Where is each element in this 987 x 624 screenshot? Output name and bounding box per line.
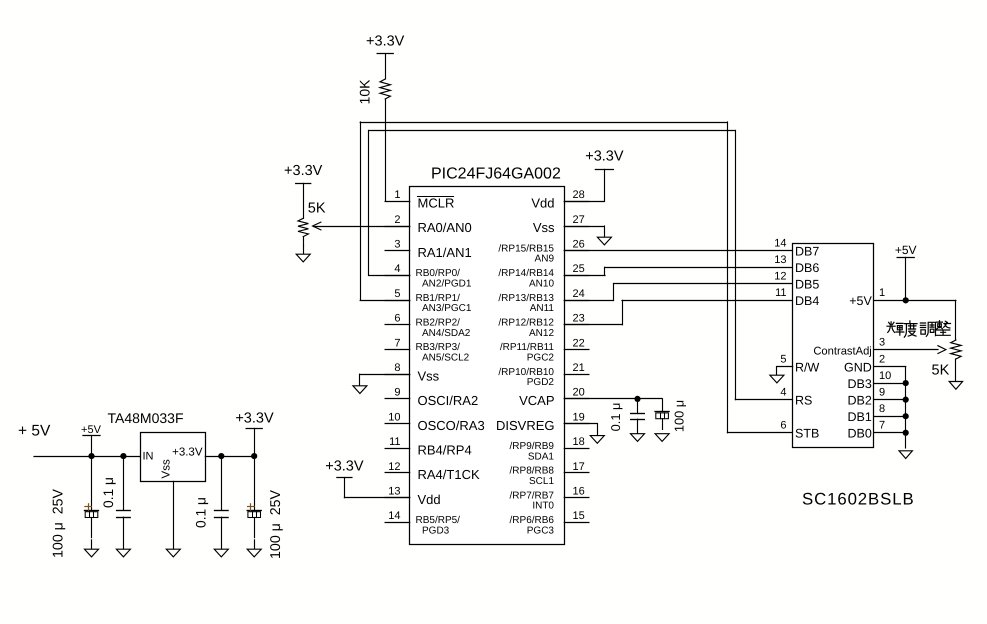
node junction DB2 [903, 397, 909, 403]
svg-text:+5V: +5V [81, 424, 102, 436]
svg-text:12: 12 [774, 271, 786, 283]
U2 pin 14 DB7 label [774, 238, 819, 259]
svg-text:100 μ 25V: 100 μ 25V [268, 490, 284, 559]
svg-text:RB4/RP4: RB4/RP4 [418, 443, 472, 458]
capacitor C5 0.1u on VCAP [631, 399, 645, 434]
wire Vdd pin28 to +3.3V [564, 169, 604, 201]
node junction C3 [218, 453, 224, 459]
U2 pin 6 STB label [780, 420, 819, 441]
svg-text:13: 13 [388, 486, 400, 498]
wire ContrastAdj pin3 to wiper with arrow [874, 346, 946, 354]
svg-text:DB7: DB7 [795, 244, 819, 258]
ground (left pot) [296, 246, 310, 262]
U1 pin 9 stub and label [385, 387, 478, 408]
U1 pin 1 stub and label [385, 189, 454, 210]
wire DB1 pin8 to chain [874, 416, 906, 418]
svg-text:RS: RS [795, 393, 812, 407]
ground (C5) [631, 434, 645, 442]
svg-text:PGC3: PGC3 [527, 525, 555, 536]
node junction +5V [903, 297, 909, 303]
U1 pin 5 stub and label [385, 288, 472, 314]
svg-text:16: 16 [573, 486, 585, 498]
svg-text:AN3/PGC1: AN3/PGC1 [422, 303, 472, 314]
U2 pin 9 DB2 label [847, 386, 885, 407]
wire pin23 RB12 to LCD DB4 [564, 300, 792, 324]
power +3.3V supply (pin 13 Vdd) [325, 458, 364, 477]
svg-text:+5V: +5V [895, 243, 917, 257]
node junction DB1 [903, 413, 909, 419]
wire pin25 RB14 to LCD DB6 [564, 267, 792, 275]
wire regulator output rail [205, 456, 254, 458]
svg-text:5: 5 [394, 288, 400, 300]
power +3.3V supply (regulator output) [235, 411, 274, 457]
svg-text:DB4: DB4 [795, 294, 819, 308]
U2 pin 1 +5V label [849, 287, 885, 308]
wire DISVREG pin19 to ground [564, 424, 597, 436]
op-amp U2 SC1602BSLB LCD module body [793, 244, 915, 509]
capacitor C6 100u electrolytic on VCAP [655, 399, 669, 430]
svg-text:Vss: Vss [418, 368, 440, 383]
wire DB0 pin7 to chain [874, 432, 906, 434]
ground (C1) [85, 540, 99, 557]
svg-text:IN: IN [143, 451, 154, 463]
U1 pin 8 stub and label [385, 362, 440, 383]
svg-text:25: 25 [573, 263, 585, 275]
label C1 polarity + [85, 504, 92, 510]
svg-text:10: 10 [388, 411, 400, 423]
U1 pin 25 stub and label [498, 263, 588, 289]
svg-text:GND: GND [844, 360, 872, 374]
svg-text:24: 24 [573, 288, 585, 300]
capacitor C2 0.1u [117, 456, 131, 549]
svg-text:6: 6 [780, 420, 786, 432]
U1 pin 6 stub and label [385, 313, 471, 339]
wire pot to ground [955, 359, 957, 382]
svg-text:22: 22 [573, 337, 585, 349]
transistor U3 TA48M033F regulator body [108, 410, 206, 481]
U1 pin 17 stub and label [510, 461, 589, 487]
svg-text:Vdd: Vdd [531, 196, 554, 211]
node junction VCAP/C5 [634, 396, 640, 402]
U2 pin 4 RS label [780, 386, 812, 407]
svg-text:15: 15 [573, 510, 585, 522]
svg-text:+3.3V: +3.3V [366, 34, 405, 50]
label kido-chousei (brightness adjust) kanji [887, 321, 951, 338]
U1 pin 14 stub and label [385, 510, 460, 536]
wire bus line 1: PIC pin5 RB1 to LCD STB [360, 122, 793, 433]
svg-text:23: 23 [573, 313, 585, 325]
svg-text:7: 7 [879, 420, 885, 432]
wire pin24 RB13 to LCD DB5 [564, 284, 792, 301]
ground (C3) [214, 549, 228, 557]
resistor VR 5K potentiometer (left) [298, 218, 308, 236]
capacitor C3 0.1u [215, 456, 229, 549]
svg-text:13: 13 [774, 254, 786, 266]
power +3.3V supply (top, above R 10K) [366, 34, 405, 54]
svg-text:10: 10 [879, 370, 891, 382]
ground (C6) [655, 434, 669, 442]
wire regulator Vss to ground [173, 481, 175, 549]
U1 pin 11 stub and label [385, 436, 472, 457]
svg-text:9: 9 [879, 386, 885, 398]
svg-text:+5V: +5V [849, 294, 872, 308]
ground (LCD data/GND chain) [899, 451, 912, 459]
U1 pin 27 stub and label [533, 214, 589, 235]
svg-text:7: 7 [394, 337, 400, 349]
wire bus line 2: PIC pin4 RB0 to LCD RS [369, 131, 793, 400]
wire LCD GND pin2 to ground chain [874, 367, 906, 449]
ground (regulator Vss) [166, 549, 180, 557]
svg-text:+3.3V: +3.3V [585, 149, 624, 165]
capacitor C1 100u 25V electrolytic [85, 456, 99, 538]
svg-text:RA4/T1CK: RA4/T1CK [418, 467, 480, 482]
U1 pin 28 stub and label [531, 189, 589, 210]
svg-text:SC1602BSLB: SC1602BSLB [802, 490, 915, 509]
svg-text:RA0/AN0: RA0/AN0 [418, 220, 472, 235]
resistor R 10K [380, 79, 390, 99]
svg-text:100 μ: 100 μ [672, 400, 687, 432]
U1 pin 26 stub and label [498, 239, 588, 265]
svg-text:SDA1: SDA1 [528, 451, 555, 462]
svg-text:11: 11 [775, 287, 786, 299]
ground (C2) [116, 549, 130, 557]
U2 pin 10 DB3 label [847, 370, 891, 391]
capacitor C4 100u 25V electrolytic [247, 456, 261, 538]
svg-text:1: 1 [879, 287, 885, 299]
svg-text:+3.3V: +3.3V [325, 458, 364, 474]
svg-text:AN12: AN12 [529, 328, 554, 339]
wire LCD pin1 +5V rail to pot [874, 257, 956, 340]
svg-text:DB2: DB2 [847, 393, 871, 407]
svg-text:Vdd: Vdd [418, 492, 441, 507]
U2 pin 2 GND label [844, 353, 885, 374]
wire DB2 pin9 to chain [874, 399, 906, 401]
svg-text:VCAP: VCAP [519, 393, 554, 408]
svg-text:4: 4 [394, 263, 400, 275]
svg-text:+ 5V: + 5V [18, 423, 51, 440]
svg-text:OSCO/RA3: OSCO/RA3 [418, 418, 485, 433]
U1 pin 7 stub and label [385, 337, 470, 363]
ground (pin 8 Vss) [353, 374, 367, 393]
U2 pin 8 DB1 label [847, 403, 885, 424]
svg-text:AN2/PGD1: AN2/PGD1 [422, 278, 472, 289]
svg-text:1: 1 [394, 189, 400, 201]
U2 pin 5 R/W label [780, 353, 819, 374]
wire pin26 RB15 to LCD DB7 [564, 250, 792, 252]
resistor VR2 5K potentiometer (contrast) [951, 340, 961, 359]
svg-text:11: 11 [389, 436, 400, 448]
svg-text:PGC2: PGC2 [527, 353, 555, 364]
wire R/W pin5 to ground [777, 366, 793, 368]
svg-text:18: 18 [573, 436, 585, 448]
ground (C4) [247, 540, 261, 557]
svg-text:27: 27 [573, 214, 585, 226]
svg-text:Vss: Vss [161, 459, 173, 478]
wire pot lead to ground [303, 237, 305, 246]
wire +3.3V to potentiometer [303, 183, 305, 218]
svg-text:AN11: AN11 [530, 303, 555, 314]
U1 pin 3 stub and label [385, 239, 472, 260]
svg-text:0.1 μ: 0.1 μ [193, 497, 208, 528]
svg-text:Vss: Vss [533, 220, 555, 235]
U2 pin 13 DB6 label [774, 254, 819, 275]
node junction DB0 [903, 430, 909, 436]
U1 pin 13 stub and label [385, 486, 441, 507]
wire +3.3V to resistor 10K [385, 54, 387, 79]
svg-text:0.1 μ: 0.1 μ [608, 403, 623, 432]
svg-text:20: 20 [573, 387, 585, 399]
power +5V supply (small, above C1) [81, 424, 102, 456]
U2 pin 3 ContrastAdj label [813, 336, 885, 357]
svg-text:PGD2: PGD2 [527, 377, 555, 388]
svg-text:MCLR: MCLR [418, 196, 455, 211]
node junction C2 [120, 453, 126, 459]
U1 pin 21 stub and label [498, 362, 588, 388]
wire +3.3V to Vdd pin13 [344, 478, 409, 498]
svg-text:OSCI/RA2: OSCI/RA2 [418, 393, 479, 408]
ground (R/W) [770, 367, 784, 383]
svg-text:26: 26 [573, 239, 585, 251]
svg-text:RA1/AN1: RA1/AN1 [418, 245, 472, 260]
ground (pin 19) [590, 436, 604, 444]
svg-text:R/W: R/W [795, 360, 820, 374]
svg-text:9: 9 [394, 387, 400, 399]
svg-text:100 μ 25V: 100 μ 25V [51, 489, 67, 558]
U1 pin 4 stub and label [385, 263, 472, 289]
svg-text:+3.3V: +3.3V [172, 447, 203, 459]
svg-text:STB: STB [795, 426, 819, 440]
U1 pin 24 stub and label [498, 288, 588, 314]
svg-text:19: 19 [573, 411, 585, 423]
svg-text:14: 14 [774, 238, 786, 250]
power +3.3V supply (pin 28 Vdd) [585, 149, 624, 170]
svg-text:8: 8 [879, 403, 885, 415]
U1 pin 16 stub and label [510, 486, 589, 512]
svg-text:AN10: AN10 [529, 278, 554, 289]
svg-text:2: 2 [879, 353, 885, 365]
svg-text:8: 8 [394, 362, 400, 374]
svg-text:PIC24FJ64GA002: PIC24FJ64GA002 [431, 166, 561, 183]
U1 pin 18 stub and label [510, 436, 589, 462]
svg-text:2: 2 [394, 214, 400, 226]
wire DB3 pin10 to chain [874, 383, 906, 385]
U1 pin 10 stub and label [385, 411, 485, 432]
wire Vss pin8 to ground [360, 374, 410, 376]
svg-text:AN4/SDA2: AN4/SDA2 [422, 328, 471, 339]
svg-text:5K: 5K [308, 201, 326, 217]
svg-text:10K: 10K [357, 79, 373, 105]
svg-text:14: 14 [388, 510, 400, 522]
ground (right pot) [949, 382, 962, 390]
svg-text:+3.3V: +3.3V [235, 411, 274, 427]
node junction C4 / +3.3V [251, 453, 257, 459]
svg-text:DB5: DB5 [795, 278, 819, 292]
U1 pin 12 stub and label [385, 461, 480, 482]
U1 pin 2 stub and label [385, 214, 472, 235]
svg-text:4: 4 [780, 386, 786, 398]
wire 10K to MCLR pin 1 [385, 99, 387, 201]
svg-text:DB6: DB6 [795, 261, 819, 275]
wire VCAP pin20 rail [564, 398, 662, 400]
U1 pin 20 stub and label [519, 387, 589, 408]
svg-text:SCL1: SCL1 [529, 476, 554, 487]
svg-text:PGD3: PGD3 [422, 525, 450, 536]
wire RA0 pin2 to pot wiper with arrow [313, 222, 410, 230]
svg-text:DISVREG: DISVREG [496, 418, 555, 433]
svg-text:+3.3V: +3.3V [284, 163, 323, 179]
svg-text:5: 5 [780, 353, 786, 365]
svg-text:3: 3 [879, 336, 885, 348]
power +3.3V supply (left pot) [284, 163, 323, 184]
U2 pin 12 DB5 label [774, 271, 819, 292]
U1 pin 23 stub and label [498, 313, 588, 339]
label C4 polarity + [248, 504, 255, 510]
ground (pin 27 Vss) [597, 226, 611, 245]
svg-text:DB3: DB3 [847, 377, 871, 391]
svg-text:28: 28 [573, 189, 585, 201]
svg-text:DB1: DB1 [847, 410, 871, 424]
svg-text:AN9: AN9 [535, 254, 555, 265]
svg-text:6: 6 [394, 313, 400, 325]
wire Vss pin27 to ground [564, 226, 604, 228]
svg-text:TA48M033F: TA48M033F [108, 410, 184, 426]
svg-text:21: 21 [573, 362, 585, 374]
U1 pin 15 stub and label [510, 510, 589, 536]
wire +5V input rail [34, 456, 140, 458]
U1 pin 19 stub and label [496, 411, 589, 432]
svg-text:ContrastAdj: ContrastAdj [813, 345, 871, 357]
svg-text:17: 17 [573, 461, 585, 473]
svg-text:DB0: DB0 [847, 426, 871, 440]
svg-text:5K: 5K [932, 363, 950, 379]
op-amp U1 PIC24FJ64GA002 IC body [410, 166, 565, 545]
svg-text:12: 12 [388, 461, 400, 473]
svg-text:AN5/SCL2: AN5/SCL2 [422, 353, 470, 364]
svg-text:0.1 μ: 0.1 μ [101, 477, 116, 508]
svg-text:INT0: INT0 [532, 501, 554, 512]
node junction DB3 [903, 380, 909, 386]
power +5V supply (LCD) [895, 243, 917, 258]
svg-text:3: 3 [394, 239, 400, 251]
U2 pin 7 DB0 label [847, 420, 885, 441]
U1 pin 22 stub and label [500, 337, 589, 363]
node junction C1 [88, 453, 94, 459]
U2 pin 11 DB4 label [775, 287, 819, 308]
